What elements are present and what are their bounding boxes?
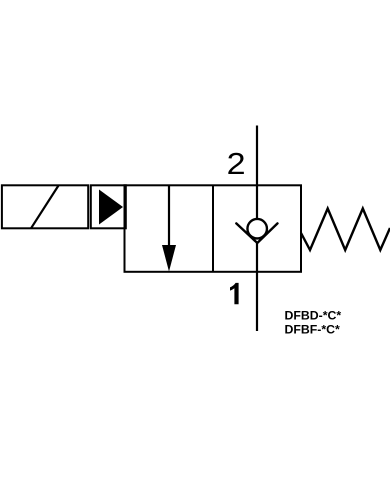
valve body divider bbox=[212, 185, 214, 271]
flow arrow stem bbox=[168, 185, 170, 248]
check valve seat (V) bbox=[236, 223, 277, 243]
filled right-pointing triangle bbox=[99, 190, 123, 225]
port label 1 bbox=[230, 283, 239, 304]
svg-text:DFBD-*C*: DFBD-*C* bbox=[285, 309, 342, 323]
solenoid box (left cell with diagonal) bbox=[2, 185, 88, 228]
spring (zigzag) bbox=[301, 209, 390, 251]
check valve ball (circle) bbox=[247, 219, 267, 239]
port 2 line (top) bbox=[256, 126, 258, 220]
flow arrowhead (down) bbox=[162, 245, 176, 272]
svg-text:DFBF-*C*: DFBF-*C* bbox=[285, 323, 341, 337]
solenoid diagonal line bbox=[31, 186, 59, 229]
solenoid pilot cell (box with filled triangle) bbox=[91, 185, 126, 228]
svg-text:2: 2 bbox=[227, 147, 246, 181]
valve body outline bbox=[125, 185, 302, 271]
port 1 line (bottom) bbox=[256, 242, 258, 331]
